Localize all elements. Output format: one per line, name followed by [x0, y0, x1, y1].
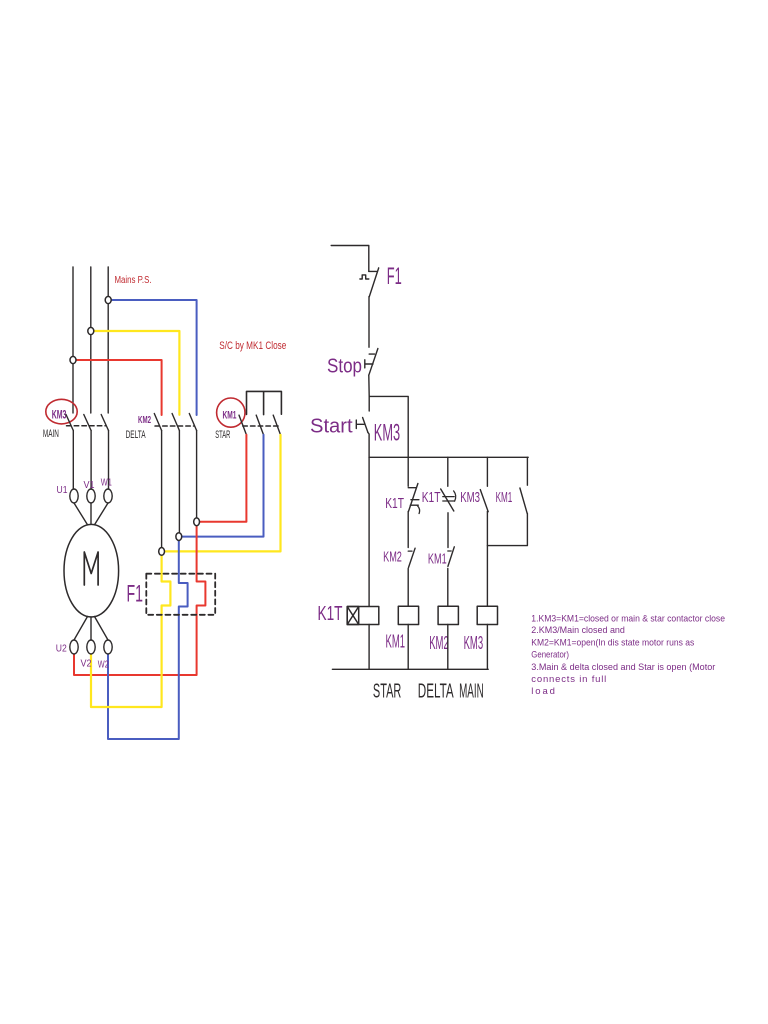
terminal V1 — [87, 489, 95, 503]
node dot on L1 — [70, 356, 76, 363]
svg-text:F1: F1 — [127, 581, 144, 608]
stop button blade — [369, 349, 378, 376]
wire K1T coil to bottom rail — [368, 625, 370, 670]
node ring yellow — [159, 548, 165, 556]
wire yellow through F1 to V2 — [91, 551, 170, 707]
contactor KM1 pole 2 blade — [256, 415, 263, 435]
svg-text:KM2: KM2 — [429, 633, 449, 653]
wire branch to start — [368, 396, 370, 411]
contactor KM1 ellipse — [217, 398, 245, 427]
wire KM1 coil to bottom rail — [407, 625, 409, 670]
seal branch wire — [369, 396, 408, 457]
svg-text:K1T: K1T — [318, 603, 343, 625]
wire yellow tap from L2 — [91, 331, 180, 415]
bottom rail — [332, 668, 488, 670]
contactor KM3 ellipse — [46, 399, 77, 424]
terminal W1 — [104, 489, 112, 503]
contactor KM2 linkage dashed — [155, 425, 194, 427]
star point bridge bar — [247, 391, 282, 414]
phase line L2 — [90, 267, 92, 413]
svg-text:V1: V1 — [84, 480, 95, 491]
svg-text:K1T: K1T — [385, 495, 404, 512]
svg-text:F1: F1 — [387, 263, 402, 290]
top rail — [369, 456, 528, 458]
contactor KM3 pole 1 blade — [66, 415, 73, 431]
svg-text:KM1: KM1 — [428, 550, 447, 567]
wire red star pole1 to node — [197, 435, 247, 522]
svg-text:KM2=KM1=open(In dis state moto: KM2=KM1=open(In dis state motor runs as — [531, 638, 694, 649]
KM2 NO contact blade — [409, 548, 416, 567]
coil KM3 — [477, 606, 497, 624]
wire blue through F1 to W2 — [108, 537, 188, 739]
start button actuator — [356, 420, 364, 428]
overload F1 dashed box — [146, 574, 215, 615]
K1T NC timed contact bars — [410, 500, 419, 506]
terminal V2 — [87, 640, 95, 654]
wire KM2 pole1 down — [161, 431, 163, 548]
terminal U1 — [70, 489, 78, 503]
terminal W2 — [104, 640, 112, 654]
K1T NC timed contact delay arc — [417, 506, 419, 514]
contactor KM1 pole 3 blade — [273, 415, 280, 435]
motor M letter — [84, 552, 98, 585]
stop button fixed tick — [369, 353, 374, 355]
wire motor to V2 — [90, 617, 92, 640]
branch 4 wire rail to KM3 NC contact — [486, 457, 488, 486]
svg-text:2.KM3/Main closed and: 2.KM3/Main closed and — [531, 625, 625, 636]
svg-text:STAR: STAR — [373, 681, 401, 703]
contactor KM2 pole 2 blade — [172, 414, 179, 431]
svg-text:KM2: KM2 — [138, 415, 151, 426]
K1T NC timed contact blade — [409, 484, 418, 512]
start button blade — [363, 418, 368, 433]
svg-text:Start: Start — [310, 415, 353, 437]
stop button actuator — [365, 360, 373, 368]
wire start to rail — [368, 432, 369, 457]
branch 2 wire rail to K1T contact — [407, 457, 409, 486]
wire KM3 pole2 to V1 — [90, 431, 92, 490]
wire W1 to motor — [95, 503, 109, 525]
wire yellow star pole3 to node — [162, 435, 281, 552]
wire KM2 coil to bottom rail — [447, 625, 449, 670]
contactor KM3 linkage dashed — [67, 425, 107, 427]
wire KM3 coil to bottom rail — [486, 625, 488, 670]
svg-text:KM3: KM3 — [460, 489, 480, 506]
wire KM3 pole3 to W1 — [108, 431, 110, 490]
K1T NO timed contact bars — [443, 497, 454, 501]
svg-text:W2: W2 — [98, 660, 109, 671]
svg-text:3.Main & delta closed and Star: 3.Main & delta closed and Star is open (… — [531, 662, 715, 673]
wire KM3 contact to KM3 coil — [486, 511, 488, 606]
wire KM2 pole2 down — [178, 431, 180, 533]
wire Stop to branch — [368, 375, 370, 396]
wire motor to U2 — [74, 617, 88, 641]
svg-text:DELTA: DELTA — [126, 429, 146, 441]
node dot on L3 — [105, 296, 111, 303]
phase line L3 — [107, 267, 109, 413]
branch 5 wire rail to KM1 NO contact — [526, 457, 528, 485]
svg-text:KM1: KM1 — [496, 489, 513, 506]
svg-text:Mains P.S.: Mains P.S. — [115, 275, 152, 286]
svg-text:connects in full: connects in full — [531, 674, 606, 685]
wire red through F1 to U2 — [74, 522, 205, 675]
phase line L1 — [72, 267, 74, 413]
K1T NO timed contact blade — [441, 489, 454, 511]
svg-text:DELTA: DELTA — [418, 681, 454, 703]
node dot on L2 — [88, 327, 94, 334]
svg-text:W1: W1 — [101, 478, 112, 489]
wire KM2 pole3 down — [196, 431, 198, 519]
svg-text:KM3: KM3 — [52, 407, 67, 421]
breaker F1 blade — [369, 268, 378, 297]
svg-text:STAR: STAR — [215, 429, 230, 441]
KM3 NC contact blade — [480, 490, 488, 512]
timer coil K1T box — [347, 607, 379, 625]
KM1 NO contact blade — [448, 547, 454, 567]
wire KM1 contact to KM2 coil — [447, 569, 449, 607]
svg-text:V2: V2 — [81, 659, 92, 670]
svg-text:KM2: KM2 — [383, 548, 402, 565]
svg-text:U1: U1 — [57, 485, 68, 496]
svg-text:MAIN: MAIN — [459, 681, 484, 703]
wire KM3 pole1 to U1 — [72, 431, 74, 490]
contactor KM1 linkage dashed — [243, 425, 280, 427]
KM1 NO contact tick — [448, 550, 451, 552]
node ring blue — [176, 533, 182, 541]
wire V1 to motor — [90, 503, 92, 524]
branch 3 wire rail to K1T NO contact — [447, 457, 449, 486]
KM1 NO contact blade branch5 — [520, 488, 527, 513]
contactor KM2 pole 3 blade — [189, 414, 196, 431]
wire blue star pole2 to node — [179, 435, 264, 537]
svg-text:KM1: KM1 — [223, 410, 237, 422]
wire F1 to Stop — [368, 297, 370, 348]
coil KM1 — [398, 606, 418, 624]
contactor KM2 pole 1 blade — [154, 414, 161, 431]
contactor KM3 pole 3 blade — [101, 415, 108, 431]
svg-text:K1T: K1T — [422, 489, 441, 506]
svg-text:KM3: KM3 — [374, 420, 400, 447]
svg-text:MAIN: MAIN — [43, 428, 59, 440]
node ring red — [194, 518, 200, 526]
wire K1T NO to KM1 contact — [447, 513, 449, 548]
svg-text:load: load — [531, 686, 555, 697]
contactor KM1 pole 1 blade — [239, 415, 246, 435]
terminal U2 — [70, 640, 78, 654]
wire red tap from L1 — [73, 360, 162, 415]
K1T NO timed contact delay arc — [454, 491, 456, 501]
wire KM1 branch5 to branch4 — [487, 513, 527, 545]
K1T NC timed contact tick — [408, 487, 416, 489]
control supply top wire — [331, 246, 369, 272]
wire KM2 contact to KM1 coil — [407, 569, 409, 607]
svg-text:S/C by MK1 Close: S/C by MK1 Close — [219, 340, 286, 352]
coil KM2 — [438, 606, 458, 624]
svg-text:KM3: KM3 — [464, 633, 484, 653]
svg-text:U2: U2 — [56, 643, 67, 654]
wire U1 to motor — [74, 503, 88, 525]
timer coil K1T x square — [347, 607, 359, 625]
svg-text:KM1: KM1 — [386, 632, 406, 652]
wire blue tap from L3 — [108, 300, 196, 415]
motor M body — [64, 524, 119, 617]
wire motor to W2 — [95, 617, 109, 641]
KM2 NO contact tick — [408, 550, 412, 552]
svg-text:Stop: Stop — [327, 356, 362, 378]
svg-text:Generator): Generator) — [531, 650, 569, 661]
breaker F1 thermal bump — [360, 275, 369, 279]
svg-text:1.KM3=KM1=closed or main & sta: 1.KM3=KM1=closed or main & star contacto… — [531, 614, 725, 625]
branch 1 wire rail to K1T coil — [368, 457, 370, 606]
wire K1T contact to KM2 contact — [407, 511, 409, 547]
contactor KM3 pole 2 blade — [84, 415, 91, 431]
breaker F1 fixed tick — [369, 270, 377, 272]
